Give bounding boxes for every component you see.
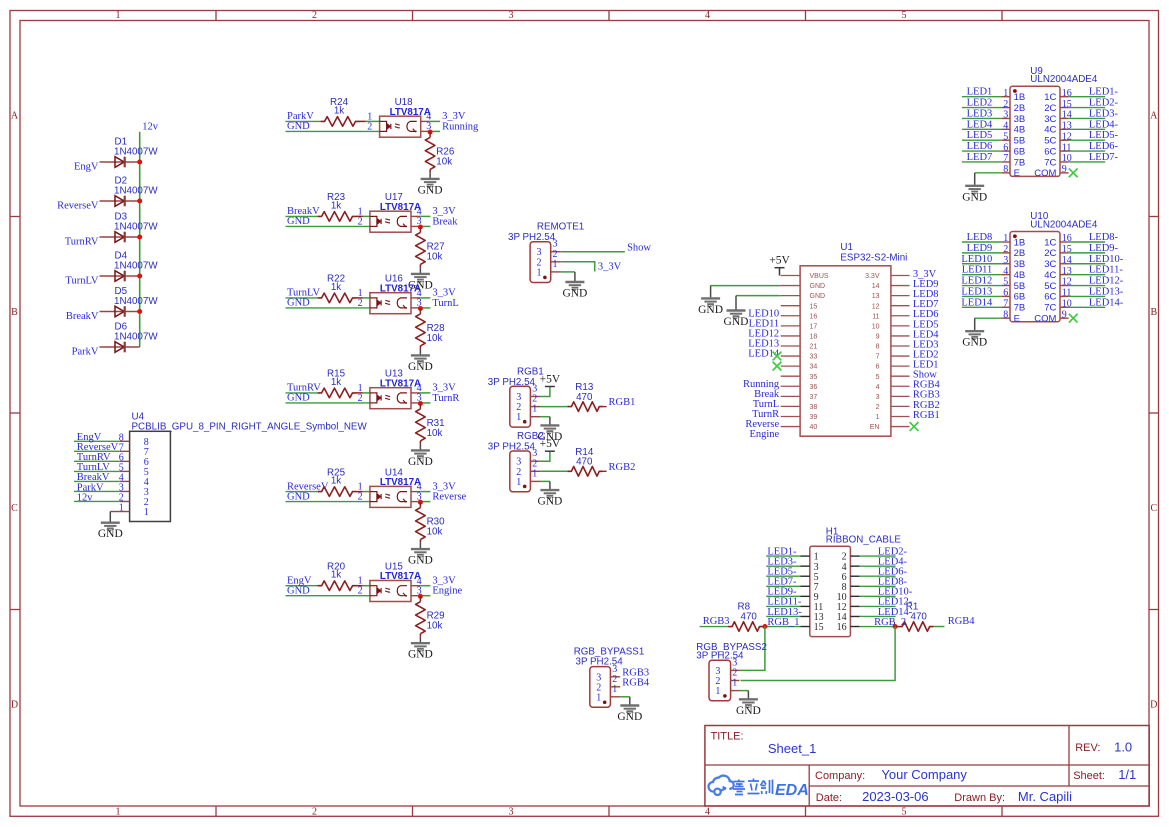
svg-text:3_3V: 3_3V xyxy=(598,261,622,272)
wire net LED4- xyxy=(860,565,896,567)
svg-text:Sheet_1: Sheet_1 xyxy=(768,741,816,756)
svg-text:40: 40 xyxy=(810,424,818,431)
wire net TurnRV xyxy=(74,460,120,462)
svg-text:PCBLIB_GPU_8_PIN_RIGHT_ANGLE_S: PCBLIB_GPU_8_PIN_RIGHT_ANGLE_Symbol_NEW xyxy=(132,421,368,432)
pin 3 stub + wire xyxy=(411,595,420,597)
diode D2 xyxy=(100,176,159,207)
svg-text:1: 1 xyxy=(516,477,521,488)
ground U4 xyxy=(98,523,123,541)
wire net ParkV xyxy=(74,490,120,492)
svg-text:TurnRV: TurnRV xyxy=(65,237,99,248)
svg-text:LED10: LED10 xyxy=(961,254,992,265)
svg-text:5B: 5B xyxy=(1014,281,1026,292)
wire net LED12 xyxy=(962,285,1001,287)
svg-text:LED6: LED6 xyxy=(967,141,993,152)
pin 2 U4 xyxy=(119,492,149,508)
svg-text:+5V: +5V xyxy=(540,438,561,450)
wire net LED13 xyxy=(962,295,1001,297)
wire net GND xyxy=(286,130,380,132)
svg-text:15: 15 xyxy=(810,303,818,310)
no-connect COM xyxy=(1069,168,1078,177)
microcontroller U1 ESP32-S2-Mini xyxy=(800,242,907,436)
svg-text:TurnLV: TurnLV xyxy=(65,276,98,287)
pin 3 stub + wire xyxy=(421,130,430,132)
svg-text:9: 9 xyxy=(1062,309,1067,320)
svg-text:1: 1 xyxy=(532,468,537,479)
svg-text:2: 2 xyxy=(1003,99,1008,110)
pin 4 stub + wire xyxy=(411,215,420,217)
wire net GND xyxy=(286,501,370,503)
wire net LED3- xyxy=(766,565,800,567)
svg-text:COM: COM xyxy=(1034,168,1056,179)
svg-text:1: 1 xyxy=(116,10,121,21)
svg-text:1: 1 xyxy=(715,686,720,697)
svg-text:470: 470 xyxy=(576,457,593,468)
wire net LED3 xyxy=(962,117,1001,119)
wire net ReverseV xyxy=(74,450,120,452)
wire net LED2- xyxy=(1069,107,1106,109)
svg-text:LED6-: LED6- xyxy=(1089,141,1119,152)
wire net LED9- xyxy=(766,595,800,597)
wire net EngV xyxy=(74,440,120,442)
svg-text:10k: 10k xyxy=(427,428,443,439)
svg-text:7: 7 xyxy=(1003,153,1008,164)
svg-text:LED12-: LED12- xyxy=(1089,276,1124,287)
wire pin1 to ground xyxy=(740,690,749,692)
ic U10 ULN2004ADE4 xyxy=(1001,211,1097,324)
svg-text:1: 1 xyxy=(516,412,521,423)
svg-text:2: 2 xyxy=(876,404,880,411)
op-amp, sorry, optocoupler U14 LTV817A xyxy=(370,467,421,507)
svg-text:2C: 2C xyxy=(1044,103,1056,114)
svg-text:5: 5 xyxy=(902,807,907,818)
wire GND pin14 xyxy=(711,285,781,287)
svg-text:39: 39 xyxy=(810,414,818,421)
svg-text:REV:: REV: xyxy=(1075,742,1100,754)
svg-text:10k: 10k xyxy=(436,156,452,167)
svg-text:GND: GND xyxy=(962,337,987,349)
svg-text:LTV817A: LTV817A xyxy=(380,283,421,294)
junction xyxy=(137,274,142,279)
svg-text:13: 13 xyxy=(872,293,880,300)
pin 4 stub + wire xyxy=(411,491,420,493)
op-amp, sorry, optocoupler U18 LTV817A xyxy=(380,97,431,137)
svg-text:16: 16 xyxy=(837,622,847,633)
svg-text:GND: GND xyxy=(408,555,433,567)
wire U4 pin1 to ground xyxy=(110,511,119,513)
svg-text:GND: GND xyxy=(287,393,310,404)
wire E pin to ground xyxy=(975,317,1002,319)
svg-text:11: 11 xyxy=(872,313,879,320)
svg-text:1: 1 xyxy=(1003,233,1008,244)
pin 3 stub + wire xyxy=(411,501,420,503)
svg-text:Reverse: Reverse xyxy=(432,492,466,503)
svg-text:LTV817A: LTV817A xyxy=(380,202,421,213)
svg-text:36: 36 xyxy=(810,384,818,391)
svg-text:EN: EN xyxy=(870,424,880,431)
svg-text:4B: 4B xyxy=(1014,270,1026,281)
svg-text:GND: GND xyxy=(287,491,310,502)
svg-text:1B: 1B xyxy=(1014,92,1026,103)
svg-text:4B: 4B xyxy=(1014,125,1026,136)
svg-text:EngV: EngV xyxy=(74,162,99,173)
svg-text:7C: 7C xyxy=(1044,303,1056,314)
wire net LED13- xyxy=(1069,295,1106,297)
junction xyxy=(418,500,423,505)
ground xyxy=(562,282,587,300)
wire net LED4- xyxy=(1069,128,1106,130)
svg-text:1N4007W: 1N4007W xyxy=(114,332,158,343)
wire net LED5 xyxy=(962,139,1001,141)
op-amp, sorry, optocoupler U17 LTV817A xyxy=(370,192,421,232)
wire net ParkV xyxy=(286,120,321,122)
svg-text:TurnR: TurnR xyxy=(432,393,459,404)
svg-text:Your Company: Your Company xyxy=(881,767,967,782)
svg-text:RGB3: RGB3 xyxy=(703,616,730,627)
svg-text:C: C xyxy=(11,503,18,514)
ground xyxy=(419,543,421,550)
svg-text:2023-03-06: 2023-03-06 xyxy=(862,789,929,804)
svg-text:LED12: LED12 xyxy=(961,276,992,287)
wire net Show xyxy=(561,251,625,253)
svg-text:3C: 3C xyxy=(1044,114,1056,125)
wire net LED7 xyxy=(962,161,1001,163)
wire net LED10- xyxy=(860,595,896,597)
resistor R25 1k xyxy=(318,467,370,496)
wire GND pin13 xyxy=(736,295,781,297)
junction xyxy=(418,401,423,406)
ground xyxy=(698,298,723,316)
svg-text:LTV817A: LTV817A xyxy=(380,378,421,389)
svg-text:10k: 10k xyxy=(427,333,443,344)
svg-text:1: 1 xyxy=(532,404,537,415)
svg-text:1k: 1k xyxy=(331,377,341,388)
svg-text:3: 3 xyxy=(1003,110,1008,121)
svg-text:B: B xyxy=(11,307,18,318)
svg-text:4: 4 xyxy=(705,10,710,21)
svg-text:LED7: LED7 xyxy=(967,152,993,163)
wire junction down to bypass2 pin3 xyxy=(740,627,765,671)
ground xyxy=(419,444,421,451)
resistor R26 10k xyxy=(425,132,455,172)
svg-text:Show: Show xyxy=(627,242,651,253)
svg-text:10k: 10k xyxy=(427,527,443,538)
svg-text:EDA: EDA xyxy=(775,782,809,799)
svg-text:8: 8 xyxy=(1003,309,1008,320)
svg-text:15: 15 xyxy=(814,622,824,633)
wire net LED14- xyxy=(1069,306,1106,308)
connector RGB_BYPASS1 3P PH2.54 xyxy=(574,647,645,708)
pin 4 U4 xyxy=(119,472,149,488)
wire net LED8 xyxy=(962,241,1001,243)
diode D6 xyxy=(100,322,159,353)
svg-text:GND: GND xyxy=(736,705,761,717)
no-connect EN xyxy=(910,422,919,431)
svg-text:6C: 6C xyxy=(1044,146,1056,157)
svg-text:RIBBON_CABLE: RIBBON_CABLE xyxy=(826,535,902,546)
wire net GND xyxy=(286,595,370,597)
svg-text:GND: GND xyxy=(562,288,587,300)
svg-text:1C: 1C xyxy=(1044,92,1056,103)
wire pin1 to ground xyxy=(540,480,550,482)
svg-text:1: 1 xyxy=(1003,88,1008,99)
svg-text:8: 8 xyxy=(876,344,880,351)
svg-text:GND: GND xyxy=(617,711,642,723)
no-connect pin 33 xyxy=(773,352,782,361)
resistor R30 10k xyxy=(416,502,446,542)
svg-text:12: 12 xyxy=(872,303,880,310)
svg-text:5: 5 xyxy=(876,374,880,381)
junction xyxy=(137,235,142,240)
svg-text:2: 2 xyxy=(358,492,363,503)
svg-text:GND: GND xyxy=(408,649,433,661)
svg-text:LTV817A: LTV817A xyxy=(380,571,421,582)
svg-text:TurnL: TurnL xyxy=(432,298,458,309)
wire net LED11 xyxy=(962,274,1001,276)
svg-text:LED14: LED14 xyxy=(961,297,993,308)
svg-text:4C: 4C xyxy=(1044,270,1056,281)
diode D5 xyxy=(100,286,159,317)
svg-text:2: 2 xyxy=(367,121,372,132)
svg-text:GND: GND xyxy=(408,361,433,373)
svg-text:GND: GND xyxy=(810,283,826,290)
power +5V xyxy=(779,268,781,276)
svg-text:2: 2 xyxy=(358,586,363,597)
svg-text:LED8: LED8 xyxy=(967,232,993,243)
svg-text:470: 470 xyxy=(911,612,928,623)
svg-text:4: 4 xyxy=(1003,121,1008,132)
wire net GND xyxy=(286,225,370,227)
resistor R31 10k xyxy=(416,404,445,444)
svg-text:TITLE:: TITLE: xyxy=(711,731,744,743)
pin 3 stub + wire xyxy=(411,225,420,227)
ground xyxy=(537,425,562,443)
svg-text:LED2: LED2 xyxy=(967,98,993,109)
svg-text:38: 38 xyxy=(810,404,818,411)
wire pin3 to +5V xyxy=(540,387,550,397)
svg-text:A: A xyxy=(11,110,19,121)
svg-text:3C: 3C xyxy=(1044,259,1056,270)
wire net EngV xyxy=(286,585,318,587)
svg-text:Break: Break xyxy=(432,216,458,227)
svg-text:E: E xyxy=(1014,168,1020,179)
svg-text:Date:: Date: xyxy=(816,792,842,804)
wire net LED6- xyxy=(860,575,896,577)
power +5V xyxy=(540,373,561,386)
wire net 12v xyxy=(74,500,120,502)
svg-text:5: 5 xyxy=(1003,131,1008,142)
svg-text:10k: 10k xyxy=(427,251,443,262)
svg-text:GND: GND xyxy=(98,528,123,540)
svg-text:1N4007W: 1N4007W xyxy=(114,296,158,307)
svg-text:+5V: +5V xyxy=(540,373,561,385)
wire net RGB_2 xyxy=(860,626,895,628)
wire net LED13- xyxy=(766,615,800,617)
svg-text:9: 9 xyxy=(1062,164,1067,175)
svg-text:D: D xyxy=(11,700,18,711)
svg-text:3P PH2.54: 3P PH2.54 xyxy=(488,377,536,388)
pin 3 stub + wire xyxy=(411,402,420,404)
svg-text:16: 16 xyxy=(810,313,818,320)
svg-text:3: 3 xyxy=(876,394,880,401)
svg-text:1.0: 1.0 xyxy=(1114,739,1132,754)
svg-text:RGB4: RGB4 xyxy=(948,616,976,627)
svg-text:9: 9 xyxy=(876,334,880,341)
connector RGB2 3P PH2.54 xyxy=(488,431,544,492)
pin 8 U4 xyxy=(119,432,149,448)
ground xyxy=(962,331,987,349)
svg-text:2: 2 xyxy=(1003,244,1008,255)
wire net LED2- xyxy=(860,555,896,557)
svg-text:Company:: Company: xyxy=(815,770,865,782)
svg-text:37: 37 xyxy=(810,394,818,401)
resistor R13 470 xyxy=(567,382,606,411)
title block xyxy=(705,726,1149,807)
svg-text:2: 2 xyxy=(358,393,363,404)
svg-text:LED2-: LED2- xyxy=(1089,98,1119,109)
svg-text:ParkV: ParkV xyxy=(72,347,99,358)
svg-text:17: 17 xyxy=(810,323,818,330)
diode D1 xyxy=(100,137,159,168)
op-amp, sorry, optocoupler U16 LTV817A xyxy=(370,274,421,314)
svg-text:1/1: 1/1 xyxy=(1118,767,1136,782)
svg-text:GND: GND xyxy=(287,298,310,309)
diode D4 xyxy=(100,251,159,282)
junction xyxy=(137,199,142,204)
svg-text:REMOTE1: REMOTE1 xyxy=(537,221,584,232)
svg-text:LTV817A: LTV817A xyxy=(390,107,431,118)
svg-text:1k: 1k xyxy=(331,200,341,211)
svg-text:LTV817A: LTV817A xyxy=(380,477,421,488)
svg-text:LED5-: LED5- xyxy=(1089,130,1119,141)
svg-text:GND: GND xyxy=(287,586,310,597)
pin 3 U4 xyxy=(119,482,149,498)
pin 3 stub + wire xyxy=(411,307,420,309)
svg-text:RGB1: RGB1 xyxy=(913,410,940,421)
wire junction down to bypass2 pin2 xyxy=(741,627,896,681)
svg-text:3P PH2.54: 3P PH2.54 xyxy=(488,442,536,453)
ground xyxy=(617,706,642,724)
svg-text:LED10-: LED10- xyxy=(1089,254,1124,265)
no-connect COM xyxy=(1069,314,1078,323)
U1 pins xyxy=(781,275,800,277)
resistor R28 10k xyxy=(416,309,446,349)
svg-text:RGB4: RGB4 xyxy=(622,677,650,688)
svg-text:LED14-: LED14- xyxy=(1089,297,1124,308)
junction xyxy=(137,160,142,165)
svg-text:1: 1 xyxy=(876,414,880,421)
svg-text:Mr. Capili: Mr. Capili xyxy=(1018,789,1072,804)
wire net LED8- xyxy=(1069,241,1106,243)
svg-text:GND: GND xyxy=(287,216,310,227)
svg-text:5C: 5C xyxy=(1044,136,1056,147)
svg-text:1k: 1k xyxy=(331,476,341,487)
resistor R27 10k xyxy=(416,227,445,267)
wire net LED1 xyxy=(962,96,1001,98)
svg-text:GND: GND xyxy=(408,456,433,468)
svg-text:4C: 4C xyxy=(1044,125,1056,136)
svg-text:3: 3 xyxy=(1003,255,1008,266)
svg-text:1: 1 xyxy=(144,507,149,518)
svg-text:Drawn By:: Drawn By: xyxy=(954,792,1005,804)
junction RGB_2 xyxy=(893,624,898,629)
wire net ReverseV xyxy=(286,491,318,493)
resistor R15 1k xyxy=(318,369,370,398)
svg-text:1k: 1k xyxy=(331,570,341,581)
svg-text:2C: 2C xyxy=(1044,248,1056,259)
svg-text:2: 2 xyxy=(312,10,317,21)
svg-text:7: 7 xyxy=(876,354,880,361)
resistor R8 470 xyxy=(728,602,765,632)
svg-text:6: 6 xyxy=(1003,288,1008,299)
svg-text:5: 5 xyxy=(1003,277,1008,288)
svg-text:ULN2004ADE4: ULN2004ADE4 xyxy=(1030,220,1098,231)
logo JLCEDA xyxy=(709,776,734,795)
svg-text:ReverseV: ReverseV xyxy=(57,201,99,212)
svg-text:8: 8 xyxy=(1003,164,1008,175)
svg-text:12v: 12v xyxy=(142,122,159,133)
svg-text:GND: GND xyxy=(418,184,443,196)
svg-text:COM: COM xyxy=(1034,313,1056,324)
wire pin3 to +5V xyxy=(540,451,550,461)
resistor R1 470 xyxy=(895,602,944,632)
svg-text:VBUS: VBUS xyxy=(810,273,829,280)
junction xyxy=(418,594,423,599)
svg-text:Engine: Engine xyxy=(749,429,779,440)
wire net LED14 xyxy=(962,306,1001,308)
svg-text:4: 4 xyxy=(705,807,710,818)
svg-text:1k: 1k xyxy=(334,105,344,116)
wire pin1 to ground xyxy=(620,696,630,698)
svg-text:A: A xyxy=(1150,110,1158,121)
pin 1 U4 xyxy=(119,503,149,519)
wire net LED1- xyxy=(1069,96,1106,98)
svg-text:D: D xyxy=(1150,700,1157,711)
diode D3 xyxy=(100,212,159,243)
svg-text:5C: 5C xyxy=(1044,281,1056,292)
resistor R24 1k xyxy=(321,97,380,126)
connector RGB1 3P PH2.54 xyxy=(488,366,544,427)
wire net LED6 xyxy=(962,150,1001,152)
svg-text:Running: Running xyxy=(442,121,479,132)
junction xyxy=(418,306,423,311)
wire net LED12- xyxy=(860,605,896,607)
svg-text:1: 1 xyxy=(116,807,121,818)
svg-text:LED1: LED1 xyxy=(967,87,993,98)
pin 7 U4 xyxy=(119,442,149,458)
wire pin1 to ground xyxy=(540,416,550,418)
svg-text:ULN2004ADE4: ULN2004ADE4 xyxy=(1030,74,1098,85)
svg-text:2: 2 xyxy=(358,298,363,309)
no-connect pin 34 xyxy=(773,362,782,371)
resistor R14 470 xyxy=(567,447,606,476)
svg-text:33: 33 xyxy=(810,354,818,361)
svg-text:BreakV: BreakV xyxy=(66,311,99,322)
power +5V xyxy=(540,438,561,451)
svg-text:LED5: LED5 xyxy=(967,130,993,141)
svg-text:470: 470 xyxy=(741,612,758,623)
svg-text:2: 2 xyxy=(358,216,363,227)
svg-text:3: 3 xyxy=(509,10,514,21)
svg-text:34: 34 xyxy=(810,364,818,371)
pin 4 stub + wire xyxy=(411,297,420,299)
svg-text:6B: 6B xyxy=(1014,146,1026,157)
wire net LED3- xyxy=(1069,117,1106,119)
svg-text:10k: 10k xyxy=(427,621,443,632)
svg-text:4: 4 xyxy=(876,384,880,391)
svg-text:GND: GND xyxy=(537,496,562,508)
svg-text:LED3: LED3 xyxy=(967,108,993,119)
